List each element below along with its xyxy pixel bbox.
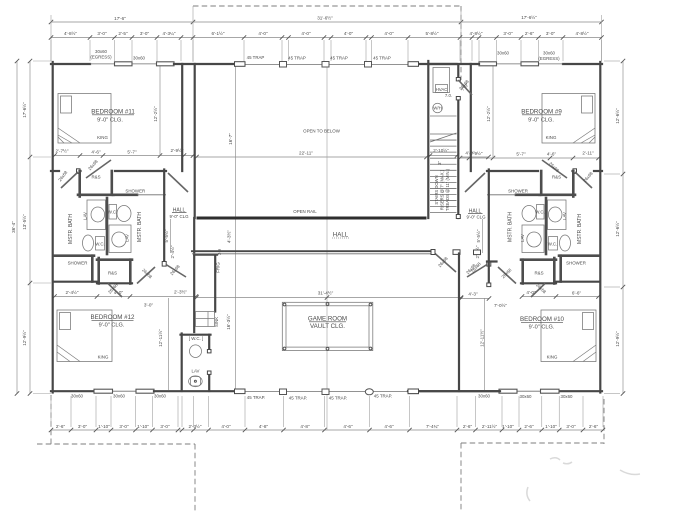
svg-text:R&S: R&S: [552, 175, 561, 180]
svg-text:6'-6": 6'-6": [572, 291, 582, 296]
svg-text:22'-11": 22'-11": [299, 151, 313, 156]
svg-text:6'-1½": 6'-1½": [212, 30, 225, 36]
svg-text:4'-8": 4'-8": [259, 424, 269, 429]
svg-text:MSTR. BATH: MSTR. BATH: [137, 212, 143, 242]
svg-text:4'-0": 4'-0": [258, 31, 268, 36]
svg-text:VAULT CLG.: VAULT CLG.: [310, 323, 345, 330]
svg-text:45 TRAP.: 45 TRAP.: [374, 394, 392, 399]
svg-text:9'-0" CLG: 9'-0" CLG: [467, 215, 487, 220]
svg-text:R&S: R&S: [91, 175, 100, 180]
svg-text:17'-6½": 17'-6½": [21, 102, 27, 118]
svg-text:9'-0" CLG: 9'-0" CLG: [170, 214, 190, 219]
svg-text:(EGRESS): (EGRESS): [90, 55, 112, 60]
svg-text:30x60: 30x60: [133, 56, 146, 61]
svg-text:4'-6": 4'-6": [547, 152, 557, 157]
svg-text:4'-6": 4'-6": [343, 424, 353, 429]
svg-text:45 TRAP: 45 TRAP: [373, 56, 391, 61]
svg-text:2'-3½": 2'-3½": [189, 423, 202, 429]
svg-text:30x60: 30x60: [497, 51, 510, 56]
svg-text:36'-4": 36'-4": [11, 221, 16, 233]
svg-text:BEDROOM #11: BEDROOM #11: [91, 109, 135, 116]
svg-text:16'-7": 16'-7": [228, 133, 233, 145]
svg-text:BEDROOM #9: BEDROOM #9: [521, 109, 562, 116]
svg-text:RISERS @ 7" (MAX.): RISERS @ 7" (MAX.): [440, 169, 445, 210]
svg-text:30x60: 30x60: [154, 394, 167, 399]
svg-text:45 TRAP: 45 TRAP: [288, 56, 306, 61]
svg-text:4'-8½": 4'-8½": [576, 30, 589, 36]
svg-text:12'-11½": 12'-11½": [479, 329, 485, 347]
svg-text:5'-7": 5'-7": [127, 150, 137, 155]
svg-text:3'-0": 3'-0": [160, 424, 170, 429]
svg-text:2'-6": 2'-6": [589, 424, 599, 429]
svg-text:R&S: R&S: [108, 271, 117, 276]
svg-text:HALL: HALL: [333, 232, 349, 239]
svg-text:1'-10": 1'-10": [502, 424, 514, 429]
svg-text:3'-0": 3'-0": [119, 424, 129, 429]
svg-text:12'-6½": 12'-6½": [614, 221, 620, 237]
svg-text:30x60: 30x60: [543, 51, 556, 56]
svg-text:4'-6": 4'-6": [91, 150, 101, 155]
svg-text:1'-10": 1'-10": [98, 424, 110, 429]
svg-text:HVAC: HVAC: [436, 87, 448, 92]
svg-text:SHOWER: SHOWER: [125, 189, 145, 194]
svg-text:2'-11": 2'-11": [582, 151, 594, 156]
svg-text:16'-3½": 16'-3½": [225, 314, 231, 330]
svg-text:STAIRS DOWN: STAIRS DOWN: [434, 175, 439, 204]
svg-text:45 TRAP.: 45 TRAP.: [247, 395, 265, 400]
svg-text:4'-3¼": 4'-3¼": [163, 31, 176, 36]
svg-text:30x60: 30x60: [71, 394, 84, 399]
svg-text:17'-6½": 17'-6½": [521, 14, 537, 20]
svg-text:4'-8½": 4'-8½": [470, 30, 483, 36]
svg-text:2'-3½": 2'-3½": [174, 289, 187, 295]
svg-text:12'-11½": 12'-11½": [157, 329, 163, 347]
svg-text:3'-0": 3'-0": [144, 303, 154, 308]
svg-text:7'-4¾": 7'-4¾": [426, 424, 439, 429]
svg-text:W.C.: W.C.: [535, 210, 545, 215]
svg-text:KING: KING: [97, 135, 108, 140]
svg-text:4'-6": 4'-6": [384, 424, 394, 429]
svg-text:7'-0½": 7'-0½": [494, 302, 507, 308]
svg-text:3'-0": 3'-0": [97, 31, 107, 36]
svg-text:4'-0": 4'-0": [344, 31, 354, 36]
svg-text:7.0.: 7.0.: [445, 93, 452, 98]
svg-text:4'-3½": 4'-3½": [226, 230, 232, 243]
svg-text:17'-6": 17'-6": [114, 16, 126, 21]
svg-text:9'-0" CLG.: 9'-0" CLG.: [528, 118, 554, 124]
svg-text:FRIG: FRIG: [216, 262, 221, 273]
svg-text:3'-0": 3'-0": [566, 424, 576, 429]
svg-text:4'-3": 4'-3": [468, 292, 478, 297]
svg-text:31'-4½": 31'-4½": [318, 290, 334, 296]
svg-text:W.C.: W.C.: [108, 210, 118, 215]
svg-text:R&S: R&S: [534, 271, 543, 276]
svg-text:LAV: LAV: [83, 212, 88, 220]
svg-text:2'-6": 2'-6": [56, 424, 66, 429]
svg-text:SHOWER: SHOWER: [68, 261, 88, 266]
svg-text:3'-0": 3'-0": [78, 424, 88, 429]
svg-text:SHOWER: SHOWER: [566, 261, 586, 266]
svg-text:30x60: 30x60: [95, 49, 108, 54]
svg-text:2'-4½": 2'-4½": [66, 289, 79, 295]
svg-text:MSTR. BATH: MSTR. BATH: [577, 214, 583, 244]
svg-text:5'-8½": 5'-8½": [426, 30, 439, 36]
svg-text:(EGRESS): (EGRESS): [538, 56, 560, 61]
svg-text:OPEN RAIL: OPEN RAIL: [293, 209, 317, 214]
svg-text:4'-8": 4'-8": [300, 424, 310, 429]
svg-text:2'-5": 2'-5": [118, 31, 128, 36]
svg-text:45 TRAP.: 45 TRAP.: [289, 396, 307, 401]
svg-text:W.C.: W.C.: [548, 242, 558, 247]
svg-text:3'-0": 3'-0": [140, 31, 150, 36]
svg-text:KING: KING: [546, 135, 557, 140]
svg-text:OPEN TO BELOW: OPEN TO BELOW: [303, 129, 341, 134]
svg-text:2'-4½": 2'-4½": [169, 245, 175, 258]
svg-text:9'-0" CLG.: 9'-0" CLG.: [97, 118, 123, 124]
svg-text:12'-9½": 12'-9½": [614, 331, 620, 347]
svg-text:12'-9½": 12'-9½": [21, 330, 27, 346]
svg-text:45 TRAP: 45 TRAP: [247, 55, 265, 60]
svg-text:30x60: 30x60: [113, 394, 126, 399]
svg-text:2'-6": 2'-6": [525, 31, 535, 36]
svg-text:31'-6½": 31'-6½": [317, 15, 333, 21]
svg-text:SHOWER: SHOWER: [508, 189, 528, 194]
svg-text:2'-6": 2'-6": [524, 424, 534, 429]
svg-text:12'-2½": 12'-2½": [485, 106, 491, 122]
svg-text:30x60: 30x60: [478, 394, 491, 399]
svg-text:W.C.: W.C.: [95, 242, 105, 247]
svg-text:2'-11½": 2'-11½": [482, 423, 498, 429]
svg-text:45 TRAP: 45 TRAP: [330, 56, 348, 61]
svg-text:5'-7": 5'-7": [516, 152, 526, 157]
svg-text:TREADS @ 11" (MIN.): TREADS @ 11" (MIN.): [445, 168, 450, 211]
svg-text:W/H: W/H: [433, 106, 442, 111]
svg-text:13'-5½": 13'-5½": [21, 214, 27, 230]
svg-text:SINK: SINK: [214, 317, 219, 327]
svg-text:4'-8½": 4'-8½": [64, 30, 77, 36]
svg-text:LAV: LAV: [562, 212, 567, 220]
svg-text:9'-0" CLG.: 9'-0" CLG.: [529, 325, 555, 331]
svg-text:1'-10": 1'-10": [137, 424, 149, 429]
svg-text:2'-6": 2'-6": [463, 424, 473, 429]
svg-text:LAV: LAV: [520, 234, 525, 242]
svg-text:2-9: 2-9: [217, 248, 222, 255]
svg-text:30x60: 30x60: [561, 394, 574, 399]
svg-text:KING: KING: [547, 355, 558, 360]
svg-text:4'-0": 4'-0": [301, 31, 311, 36]
svg-text:3'-0": 3'-0": [503, 31, 513, 36]
svg-text:45 TRAP.: 45 TRAP.: [329, 396, 347, 401]
svg-text:4'-0": 4'-0": [221, 424, 231, 429]
svg-text:5'-5½": 5'-5½": [475, 229, 481, 242]
svg-text:3'-0": 3'-0": [546, 31, 556, 36]
svg-text:LAV: LAV: [125, 234, 130, 242]
svg-text:9'-0" CLG.: 9'-0" CLG.: [99, 323, 125, 329]
svg-text:LAV: LAV: [192, 369, 200, 374]
svg-text:12'-2½": 12'-2½": [152, 106, 158, 122]
svg-text:KING: KING: [98, 355, 109, 360]
svg-text:1'-10": 1'-10": [545, 424, 557, 429]
svg-text:[ W.C. ]: [ W.C. ]: [189, 336, 203, 341]
svg-text:4'-0": 4'-0": [384, 31, 394, 36]
svg-text:2'-7½": 2'-7½": [56, 148, 69, 154]
svg-text:12'-6½": 12'-6½": [614, 108, 620, 124]
svg-text:MSTR. BATH: MSTR. BATH: [68, 214, 74, 244]
svg-text:30x60: 30x60: [520, 394, 533, 399]
svg-text:MSTR. BATH: MSTR. BATH: [508, 212, 514, 242]
